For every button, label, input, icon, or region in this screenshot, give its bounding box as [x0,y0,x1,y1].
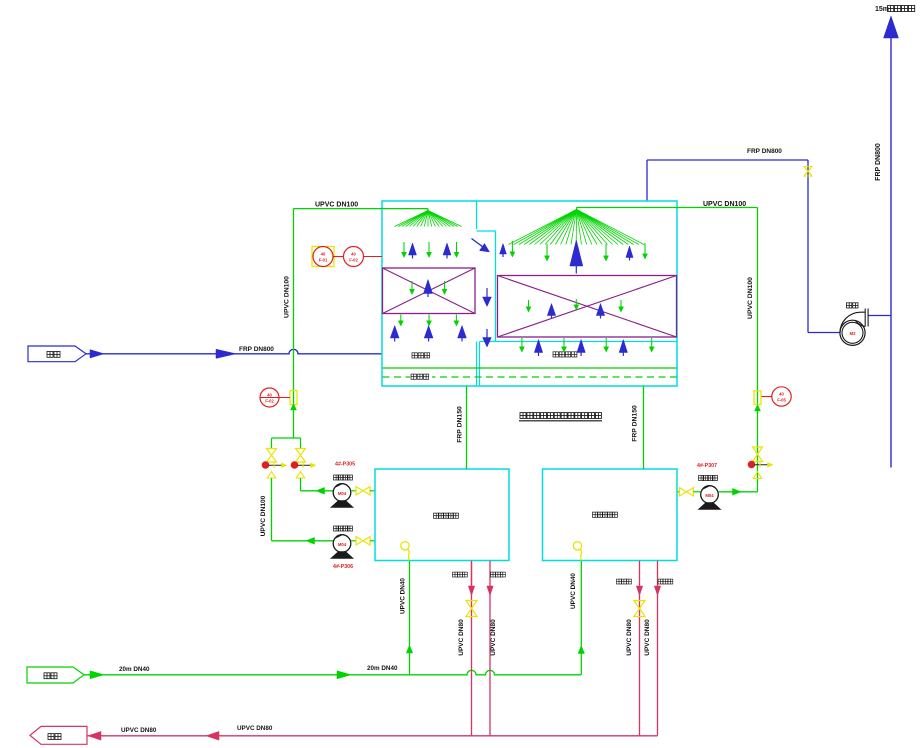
branch pipe right down [300,478,302,491]
svg-text:4#-P307: 4#-P307 [697,463,717,469]
sump circulating water dashed line [383,376,677,378]
downcomer arrow 1 [483,288,492,307]
svg-text:FRP DN800: FRP DN800 [747,148,782,155]
tank1 empty label UPVC DN80 rotated [458,619,465,656]
drain arrow 1 [88,731,101,740]
fan tag M2 [849,331,856,336]
svg-text:F-05: F-05 [777,398,786,403]
stack pipe label FRP DN800 rotated [875,143,882,181]
right riser label UPVC DN100 rotated [747,277,754,319]
branch label UPVC DN100 rotated [260,495,267,536]
svg-text:40: 40 [321,252,326,257]
drain2 label FRP DN150 rotated [632,405,639,442]
spray riser left UPVC DN100 [293,209,295,438]
drain label UPVC DN80 mid [237,725,273,732]
make-up water inlet flag 进水 [27,667,84,683]
control valve right riser [753,447,763,462]
pump3 label 循环泵三 [699,476,718,481]
drain funnel right branch [296,472,304,479]
instrument circle LI-102 [344,247,364,267]
flow meter left [290,391,297,405]
sump water surface line [383,367,677,369]
duct label FRP DN800 [747,148,782,155]
svg-text:20m DN40: 20m DN40 [119,666,150,673]
chamber1 bottom blue arrows [390,326,466,342]
chamber1 label 预洗池 [412,353,430,358]
label UPVC DN100 top right [703,201,746,208]
riser label UPVC DN100 rotated [284,276,291,318]
pump2 label 循环泵二 [334,526,353,531]
packing1 internal arrows [410,280,448,298]
svg-text:40: 40 [267,393,272,398]
svg-text:UPVC DN80: UPVC DN80 [458,619,465,656]
water main with hops over drain lines [84,670,581,675]
vessel drain to tank1 FRP DN150 [466,386,468,469]
pump3 tag 4#-P307 [697,463,717,469]
below packing1 green arrows [398,315,459,327]
tank1 empty pipe 放空管 [468,561,474,736]
svg-text:UPVC DN100: UPVC DN100 [747,277,754,319]
pump2 tag 4#-P306 [333,564,353,570]
water label 20m DN40 left [119,666,150,673]
sump label 循环水 [410,372,432,380]
svg-text:20m DN40: 20m DN40 [367,665,398,672]
svg-text:UPVC DN40: UPVC DN40 [400,578,407,614]
branch pipe left down [271,478,273,541]
pump3 discharge pipe [718,488,757,495]
stack discharge label 15m高空排放 [875,6,915,14]
svg-text:UPVC DN100: UPVC DN100 [703,201,746,208]
branch valve left actuator [262,462,287,469]
branch valve left bowtie [267,438,277,462]
svg-text:15m: 15m [875,6,889,13]
stack pipe FRP DN800 vertical [890,38,892,468]
instrument circle LI-101 [313,247,333,267]
svg-text:F-01: F-01 [319,258,328,263]
below packing2 arrows [519,338,654,356]
vessel outlet duct vertical [646,160,648,202]
pump3 suction valve [677,488,701,496]
packing2 internal arrows [526,299,624,319]
svg-text:M2: M2 [849,331,856,336]
drain arrow 2 [206,731,219,740]
drain funnel right riser [753,472,761,479]
gas inlet pipe FRP DN800 with hop over green riser [86,349,382,354]
svg-text:M04: M04 [338,491,347,496]
svg-text:UPVC DN80: UPVC DN80 [644,619,651,656]
chamber2 spray zone arrows [500,240,648,274]
svg-text:40: 40 [779,392,784,397]
partition jog [477,230,496,232]
flow arrow up right riser [755,405,761,412]
water inlet arrow 2 [337,671,351,679]
partition wall lower double [477,342,480,387]
drain outlet flag 排水 [30,726,87,744]
vessel shell [382,201,677,386]
svg-text:UPVC DN80: UPVC DN80 [121,727,157,734]
branch valve right actuator [291,462,316,469]
spray riser right UPVC DN100 [757,208,759,492]
svg-text:M04: M04 [705,493,714,498]
partition wall chamber2 side [495,231,497,342]
tank2 feed label UPVC DN40 rotated [570,573,577,609]
fan label 风机 [847,303,859,308]
tank2 float valve [573,542,581,561]
flow instrument circle right [762,387,792,406]
svg-text:UPVC DN100: UPVC DN100 [260,495,267,536]
label UPVC DN100 top left [315,202,358,209]
svg-text:40: 40 [351,252,356,257]
svg-text:FRP DN800: FRP DN800 [875,143,882,181]
flow arrow up left riser [291,404,297,411]
pump header [272,437,301,439]
instrument signal lines [334,256,383,258]
tank1 feed label UPVC DN40 rotated [400,578,407,614]
pump1 discharge pipe [301,487,334,494]
chamber1 spray zone arrows [402,242,460,259]
tank2 water feed UPVC DN40 [578,561,584,675]
vessel drain to tank2 FRP DN150 [643,386,645,469]
title 两级一体化卧式洗涤除臭装置 [519,413,602,421]
spray nozzle fan 1 [395,211,462,227]
chamber2 floor [480,341,678,343]
packing bed 2 with X brace [498,276,677,338]
spray feed pipe chamber2 [577,208,758,211]
tank1 empty valve [466,601,477,617]
drain label UPVC DN80 left [121,727,157,734]
tank1 float valve [401,542,410,561]
fan outlet pipe [869,315,892,317]
svg-text:UPVC DN100: UPVC DN100 [284,276,291,318]
svg-text:4#-P306: 4#-P306 [333,564,353,570]
tank2 empty label 放空管 [617,579,632,584]
svg-text:UPVC DN80: UPVC DN80 [626,619,633,656]
pump2 discharge pipe [272,537,334,544]
packing bed 1 with X brace [383,268,476,314]
tank2 empty label UPVC DN80 rotated [626,619,633,656]
svg-text:UPVC DN40: UPVC DN40 [570,573,577,609]
gas inlet arrow large [216,349,236,358]
pump1 suction valve [351,487,375,495]
stack arrow up [884,16,899,38]
tank2 循环液箱二 [543,469,678,561]
valve on fan inlet riser [804,167,812,177]
water inlet arrow 1 [90,671,104,679]
tank1 循环液箱一 [375,469,509,561]
pump3 循环泵三 [699,486,720,510]
tank1 overflow pipe 溢流管 [487,561,493,736]
fan inlet pipe elbow [808,160,841,333]
tank1 overflow label UPVC DN80 rotated [490,619,497,656]
tank1 overflow label 溢流管 [491,572,506,577]
spray feed pipe chamber1 [294,209,429,211]
svg-text:UPVC DN100: UPVC DN100 [315,202,358,209]
tank2 label 循环液箱二 [593,512,618,517]
svg-text:FRP DN150: FRP DN150 [632,405,639,442]
tank2 overflow pipe 溢流管 [654,561,660,736]
downcomer arrow 2 [483,329,492,347]
pump2 suction valve [351,537,375,545]
pump1 循环泵一 [332,484,353,508]
svg-text:FRP DN150: FRP DN150 [457,406,464,443]
pump1 tag 4#-P305 [335,462,355,468]
flow meter right [754,391,761,405]
drain funnel left branch [267,472,275,479]
drain1 label FRP DN150 rotated [457,406,464,443]
svg-text:4#-P305: 4#-P305 [335,462,355,468]
flow instrument circle left [260,388,290,407]
gas inlet label FRP DN800 [239,346,274,353]
tank2 empty valve [634,601,645,617]
tank2 overflow label 溢流管 [658,579,673,584]
valve actuator right riser [748,461,773,468]
tank1 empty label 放空管 [453,572,468,577]
svg-text:F-02: F-02 [349,258,358,263]
branch valve right bowtie [296,438,306,462]
svg-text:F-02: F-02 [265,399,274,404]
svg-text:FRP DN800: FRP DN800 [239,346,274,353]
chamber2 label 生物除臭 [553,352,577,357]
odor gas inlet flag 臭气 [28,346,86,362]
vessel outlet duct FRP DN800 horizontal [647,159,808,161]
drain main header [87,735,658,737]
spray nozzle fan 2 [509,210,645,245]
tank1 label 循环液箱一 [434,513,459,518]
svg-text:UPVC DN80: UPVC DN80 [237,725,273,732]
tank1 water feed UPVC DN40 [406,561,412,675]
tank2 overflow label UPVC DN80 rotated [644,619,651,656]
water label 20m DN40 right [367,665,398,672]
pump1 label 循环泵一 [334,475,353,480]
svg-text:UPVC DN80: UPVC DN80 [490,619,497,656]
panel instrument square [312,247,334,267]
gas crossover arrow into downcomer [472,239,490,253]
tank2 empty pipe 放空管 [636,561,642,736]
gas inlet arrow small [90,350,104,358]
vessel partition wall upper [476,201,478,229]
svg-text:M04: M04 [338,542,347,547]
fan 风机 blower [840,309,868,346]
pump2 循环泵二 [332,535,353,559]
